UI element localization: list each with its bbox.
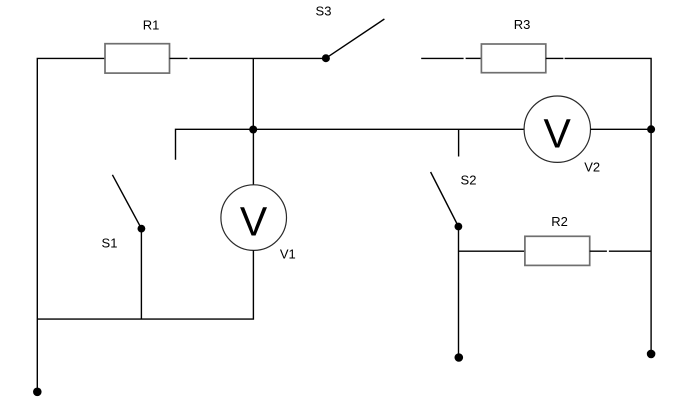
wire V2 to right junction — [591, 128, 652, 130]
switch S3 pivot dot — [322, 54, 330, 62]
wire junction A to V1 — [252, 130, 254, 185]
wire S2 upper stub — [458, 129, 460, 156]
resistor R3 — [466, 44, 546, 73]
wire R3 right stub — [546, 57, 564, 59]
wire S3 to R3 — [421, 57, 463, 59]
terminal dot bottom-left — [33, 388, 42, 397]
wire S2 down to bottom terminal — [458, 227, 460, 358]
junction dot right (V2/R3/R2 net) — [647, 125, 655, 133]
svg-text:R1: R1 — [143, 18, 160, 33]
wire middle bus (open stub to V2 left) — [176, 129, 524, 160]
wire left rail (R1 left terminal, top-left corner, down to bottom terminal) — [37, 58, 105, 391]
wire R2 to right vertical — [609, 250, 651, 252]
terminal dot S2 bottom — [455, 353, 464, 362]
terminal dot bottom-right — [647, 350, 656, 359]
wire S1 to bottom bus — [140, 229, 142, 320]
voltmeter V2 — [524, 96, 590, 162]
wire to top-right corner and right vertical — [565, 58, 652, 354]
wire R1 to S3 pivot — [190, 57, 326, 59]
svg-text:S2: S2 — [461, 172, 477, 187]
svg-text:V1: V1 — [280, 247, 296, 262]
switch S1 blade — [112, 175, 141, 229]
voltmeter V1 — [221, 185, 287, 251]
svg-text:R3: R3 — [514, 17, 531, 32]
svg-text:S3: S3 — [316, 3, 332, 18]
svg-text:V: V — [240, 199, 268, 245]
resistor R1 — [105, 44, 188, 73]
svg-text:V2: V2 — [584, 159, 600, 174]
switch S2 pivot dot — [455, 223, 463, 231]
resistor R2 — [525, 236, 607, 265]
switch S3 blade — [326, 19, 385, 58]
wire V1 bottom to bottom bus — [37, 250, 253, 319]
junction dot A — [249, 126, 257, 134]
svg-text:R2: R2 — [551, 214, 568, 229]
wire top bus down to junction A — [252, 58, 254, 129]
svg-text:S1: S1 — [102, 235, 118, 250]
switch S2 blade — [431, 172, 459, 227]
svg-text:V: V — [544, 111, 572, 157]
wire S2 to R2 — [459, 250, 525, 252]
switch S1 pivot dot — [138, 225, 146, 233]
